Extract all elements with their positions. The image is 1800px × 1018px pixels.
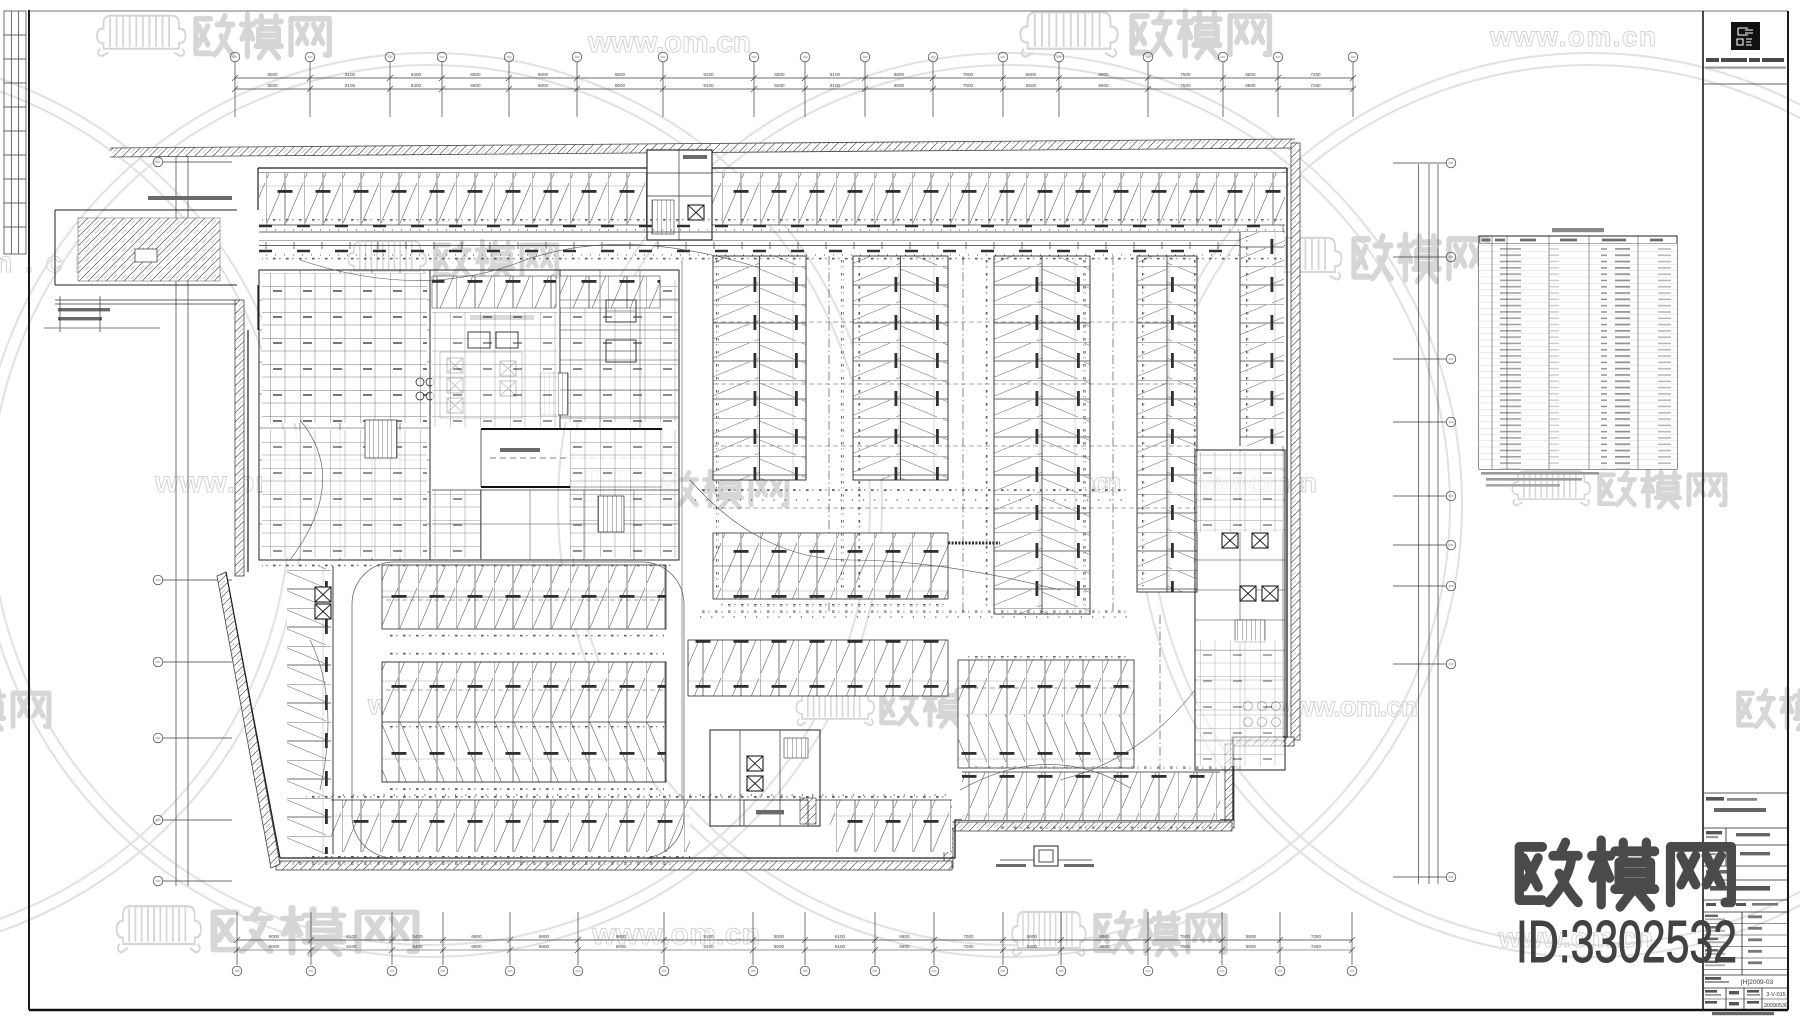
svg-text:6800: 6800 — [538, 72, 549, 77]
pump room stall rows — [432, 276, 556, 308]
svg-text:www.om.cn: www.om.cn — [1489, 21, 1658, 52]
svg-text:5800: 5800 — [1245, 83, 1256, 88]
UPS room — [744, 800, 808, 826]
parking strip S4 — [1137, 256, 1167, 592]
core mid room texture — [432, 312, 558, 427]
svg-text:8600: 8600 — [615, 83, 626, 88]
svg-text:7000: 7000 — [963, 72, 974, 77]
svg-text:8000: 8000 — [269, 944, 280, 949]
feeder dash-dot lines — [828, 256, 830, 614]
parking strip S2 — [853, 256, 901, 480]
excavation hatch band right — [1291, 143, 1300, 740]
bottom axis bubbles — [236, 912, 238, 965]
svg-text:5600: 5600 — [1027, 934, 1038, 939]
svg-text:8000: 8000 — [269, 934, 280, 939]
big site watermark — [1516, 840, 1737, 975]
svg-text:7250: 7250 — [1311, 944, 1322, 949]
parking strip S3 — [994, 256, 1042, 614]
excavation hatch band left vertical — [235, 300, 244, 576]
svg-text:5600: 5600 — [1026, 83, 1037, 88]
svg-text:6900: 6900 — [471, 944, 482, 949]
excavation hatch band top — [110, 139, 1295, 157]
frame bottom border — [29, 1009, 1788, 1012]
svg-text:9100: 9100 — [703, 934, 714, 939]
excavation hatch band bottom right — [950, 822, 1232, 831]
core block rooms — [259, 270, 679, 560]
svg-text:5000: 5000 — [774, 934, 785, 939]
svg-text:7250: 7250 — [1311, 934, 1322, 939]
svg-text:7000: 7000 — [963, 83, 974, 88]
drive aisle top — [259, 231, 1285, 233]
svg-text:6800: 6800 — [899, 944, 910, 949]
signature rows — [1703, 923, 1788, 925]
svg-text:6100: 6100 — [835, 934, 846, 939]
svg-text:[H]2009-03: [H]2009-03 — [1741, 979, 1774, 986]
excavation hatch band right step — [1232, 737, 1294, 746]
svg-text:5800: 5800 — [1246, 944, 1257, 949]
legend frame — [1479, 236, 1677, 469]
svg-text:6800: 6800 — [894, 83, 905, 88]
small equipment boxes — [468, 332, 490, 348]
right stairs — [1235, 620, 1265, 642]
stairs core — [540, 373, 568, 415]
central upper stall rows — [382, 565, 666, 629]
frame left border — [28, 10, 30, 1010]
central bottom elevator core — [710, 730, 820, 826]
project name field — [1703, 792, 1788, 794]
outer wall top — [258, 167, 1287, 169]
big watermark CJK glyphs — [1519, 840, 1731, 907]
svg-text:9100: 9100 — [703, 83, 714, 88]
svg-text:5600: 5600 — [1027, 944, 1038, 949]
svg-text:6800: 6800 — [539, 934, 550, 939]
svg-text:9100: 9100 — [703, 944, 714, 949]
corner index table top-left — [4, 11, 26, 254]
aisle label dots mid — [695, 499, 1130, 501]
bottom-right parking block — [958, 660, 1134, 714]
svg-text:8000: 8000 — [267, 72, 278, 77]
stair lower core — [598, 496, 624, 532]
junction label run — [870, 542, 1000, 545]
floor plan — [44, 139, 1300, 870]
svg-text:7000: 7000 — [963, 934, 974, 939]
svg-text:5000: 5000 — [774, 83, 785, 88]
entry ramp corridor — [55, 209, 237, 211]
outer wall right — [1286, 168, 1288, 737]
outer wall bottom steps — [280, 737, 1287, 858]
lower-left central stalls — [688, 640, 948, 696]
left twin elevator — [315, 587, 331, 602]
svg-text:9100: 9100 — [703, 72, 714, 77]
central parking block — [382, 662, 666, 722]
svg-text:7500: 7500 — [1180, 944, 1191, 949]
svg-text:7250: 7250 — [1310, 83, 1321, 88]
below frame note — [1712, 1012, 1774, 1015]
strip lower AB parking rows — [713, 533, 948, 599]
top axis bubbles — [234, 62, 236, 117]
title block borders — [1702, 11, 1704, 1010]
right elevators — [1222, 533, 1238, 548]
outer wall left — [247, 330, 249, 572]
parking strip S1 — [713, 256, 760, 480]
detail symbol below plan — [1034, 846, 1058, 866]
elevator bank core — [447, 358, 463, 373]
ramp hatch fill — [78, 218, 220, 281]
company name — [1706, 58, 1719, 62]
svg-text:8000: 8000 — [267, 83, 278, 88]
svg-text:8900: 8900 — [1099, 944, 1110, 949]
legend rows — [1479, 244, 1677, 470]
bottom stall row — [302, 800, 690, 852]
svg-text:www.om.cn: www.om.cn — [587, 26, 753, 59]
mid core partitions — [560, 299, 679, 301]
svg-text:8600: 8600 — [616, 944, 627, 949]
parking stall row top — [259, 173, 1285, 225]
svg-text:6800: 6800 — [899, 934, 910, 939]
svg-text:8100: 8100 — [346, 934, 357, 939]
fan circles — [1244, 702, 1253, 711]
svg-text:6100: 6100 — [830, 83, 841, 88]
drive lane left vertical — [681, 260, 683, 800]
wiring runs across strips — [713, 321, 1196, 323]
bottom-right stall row — [962, 772, 1220, 820]
svg-text:8900: 8900 — [1099, 934, 1110, 939]
label speck rows — [262, 219, 1283, 222]
legend title — [1552, 228, 1604, 232]
svg-text:20090530: 20090530 — [1764, 1003, 1788, 1009]
drive lane loop central — [352, 562, 684, 858]
svg-text:8100: 8100 — [346, 944, 357, 949]
svg-text:8600: 8600 — [616, 934, 627, 939]
car ramp box — [481, 428, 662, 430]
pump circles — [416, 378, 424, 386]
svg-text:6900: 6900 — [471, 934, 482, 939]
core lower partitions — [480, 490, 482, 560]
right wall parking column — [1240, 232, 1284, 446]
excavation hatch band bottom left — [276, 861, 952, 870]
svg-text:8100: 8100 — [345, 72, 356, 77]
company logo — [1731, 22, 1760, 50]
legend notes — [1481, 472, 1599, 475]
svg-text:6900: 6900 — [470, 83, 481, 88]
svg-text:5400: 5400 — [412, 944, 423, 949]
svg-text:5600: 5600 — [1026, 72, 1037, 77]
svg-text:6900: 6900 — [470, 72, 481, 77]
right axis bubbles — [1393, 162, 1446, 164]
vertical speck columns — [716, 260, 719, 590]
svg-text:8600: 8600 — [615, 72, 626, 77]
svg-text:5800: 5800 — [1245, 72, 1256, 77]
svg-text:8900: 8900 — [1098, 83, 1109, 88]
svg-text:6800: 6800 — [894, 72, 905, 77]
svg-text:8900: 8900 — [1098, 72, 1109, 77]
svg-text:7500: 7500 — [1180, 83, 1191, 88]
left wall stall column — [287, 566, 331, 854]
svg-text:7250: 7250 — [1310, 72, 1321, 77]
grid axes — [153, 52, 1456, 976]
frame top border — [29, 10, 1788, 12]
svg-text:6800: 6800 — [539, 944, 550, 949]
svg-text:7500: 7500 — [1180, 934, 1191, 939]
svg-text:5400: 5400 — [411, 83, 422, 88]
ramp label — [148, 196, 232, 200]
svg-text:6100: 6100 — [835, 944, 846, 949]
outer wall left diagonal — [226, 572, 280, 858]
right room cluster — [1195, 450, 1285, 770]
svg-text:6100: 6100 — [830, 72, 841, 77]
svg-text:7500: 7500 — [1180, 72, 1191, 77]
conduit curves — [300, 244, 760, 280]
svg-text:6800: 6800 — [538, 83, 549, 88]
svg-text:5000: 5000 — [774, 72, 785, 77]
svg-text:8100: 8100 — [345, 83, 356, 88]
svg-text:5400: 5400 — [411, 72, 422, 77]
top entrance vestibule — [647, 150, 712, 240]
svg-text:5800: 5800 — [1246, 934, 1257, 939]
svg-text:ID:3302532: ID:3302532 — [1516, 909, 1737, 975]
svg-text:5400: 5400 — [412, 934, 423, 939]
excavation hatch band left diagonal — [217, 572, 280, 868]
svg-text:7000: 7000 — [963, 944, 974, 949]
sheet title — [1710, 886, 1770, 891]
legend table — [1479, 228, 1677, 487]
svg-text:5000: 5000 — [774, 944, 785, 949]
left axis bubbles — [163, 161, 232, 163]
svg-text:3-V-015: 3-V-015 — [1766, 992, 1786, 998]
title block — [1703, 11, 1788, 1015]
